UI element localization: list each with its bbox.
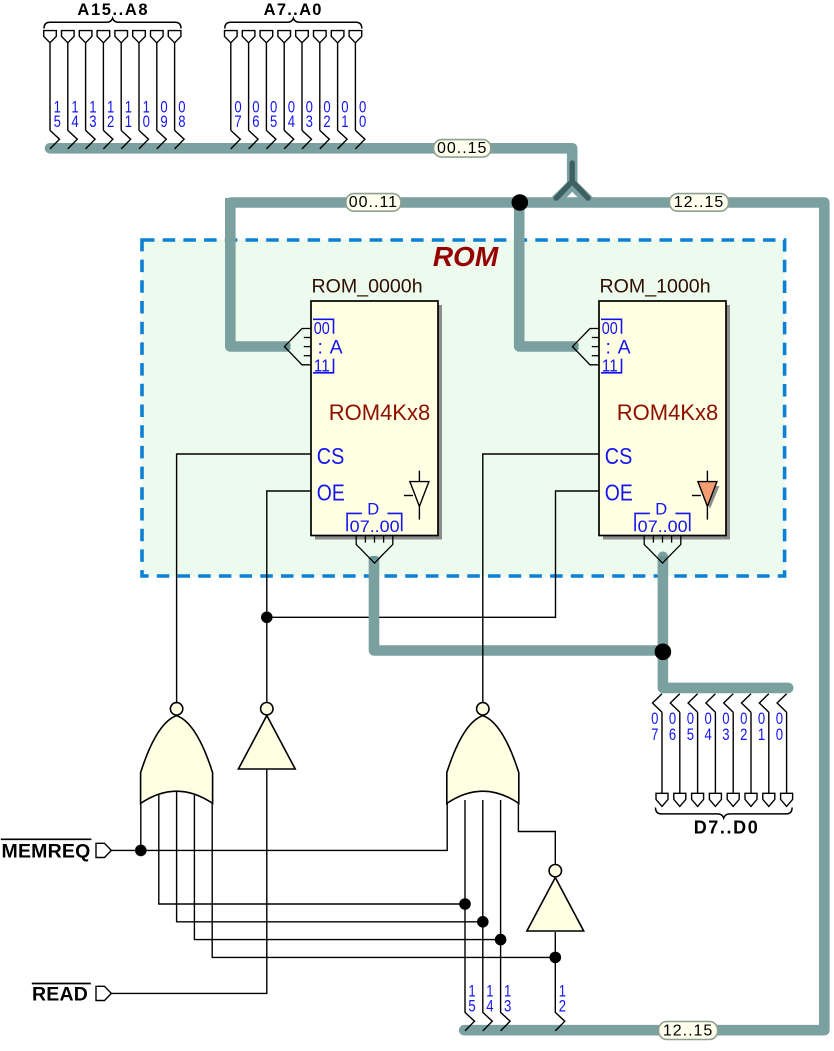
svg-text:7: 7: [651, 725, 658, 744]
svg-text:3: 3: [306, 112, 313, 131]
D bus output funnel: [644, 536, 681, 563]
svg-text:8: 8: [178, 112, 185, 131]
bus label 12..15 right: [670, 194, 729, 212]
gate G1 (5-input NOR, pointing up): [141, 703, 213, 804]
wire CS ROM_0000h (gate G1 output to CS pin): [177, 454, 311, 703]
svg-text:00: 00: [602, 318, 618, 338]
bus pin A14: [62, 31, 79, 149]
bus junction dot D rails: [655, 644, 672, 661]
bus pin A6: [242, 31, 259, 149]
bus entry 12 bottom: [555, 982, 566, 1031]
bus pin D1: [758, 694, 775, 807]
svg-text:2: 2: [107, 112, 114, 131]
svg-text:A15..A8: A15..A8: [77, 1, 149, 19]
A bus input funnel: [573, 329, 600, 365]
svg-text:MEMREQ: MEMREQ: [2, 840, 91, 862]
svg-text:07..00: 07..00: [350, 517, 400, 536]
bus D output ROM_0000h: [374, 557, 663, 651]
svg-text:ROM_1000h: ROM_1000h: [600, 275, 711, 297]
svg-text:1: 1: [341, 112, 348, 131]
bus tip square ROM_1000h D: [660, 556, 666, 560]
inverter U4 (pointing up): [527, 865, 584, 932]
ROM chip ROM_1000h body: [599, 301, 726, 536]
wire A12 from gate G1 input down and right: [212, 792, 555, 957]
bus pin A2: [314, 31, 331, 149]
bus tip square ROM_1000h A: [572, 343, 579, 350]
wire A12 riser to inverter U4 input: [554, 932, 556, 957]
svg-text:4: 4: [71, 112, 78, 131]
svg-text:9: 9: [160, 112, 167, 131]
svg-text:00..15: 00..15: [437, 140, 487, 157]
bus pin A3: [296, 31, 313, 149]
ROM chip ROM_1000h shadow: [603, 305, 730, 540]
bus pin A15: [44, 31, 61, 149]
svg-text:ROM_0000h: ROM_0000h: [312, 275, 423, 297]
svg-text:3: 3: [504, 997, 511, 1016]
bus tip square ROM_0000h A: [284, 343, 291, 350]
svg-text:12..15: 12..15: [674, 194, 724, 211]
wire READ to inverter U3 input: [111, 769, 266, 993]
inverter U3 (pointing up): [238, 703, 295, 770]
bus label 12..15 bottom: [659, 1022, 718, 1040]
bus splitter dark Y symbol: [556, 163, 588, 198]
svg-text:D: D: [655, 501, 667, 519]
pin connector READ: [96, 986, 111, 1000]
svg-text:00: 00: [314, 318, 330, 338]
svg-text:12..15: 12..15: [663, 1023, 713, 1040]
A bus input funnel: [285, 329, 312, 365]
gate G2 (5-input NOR, pointing up): [447, 703, 519, 804]
bus drop to ROM_1000h A input: [519, 206, 577, 347]
bus pin A1: [331, 31, 348, 149]
svg-text:2: 2: [559, 997, 566, 1016]
bus tip square ROM_0000h D: [371, 556, 377, 560]
svg-text:5: 5: [468, 997, 475, 1016]
bus Y-split light branches: [555, 184, 590, 201]
bus 00..15 top horizontal with corner down: [50, 148, 572, 183]
ROM chip ROM_0000h shadow: [315, 305, 442, 540]
svg-text:0: 0: [359, 112, 366, 131]
junction dot A13 node: [495, 934, 507, 946]
svg-text:2: 2: [323, 112, 330, 131]
svg-text:4: 4: [486, 997, 493, 1016]
bracket under D7..D0 pins: [656, 808, 793, 819]
svg-text:CS: CS: [317, 443, 345, 469]
bus D output ROM_1000h and D7..D0 rail: [663, 557, 788, 688]
junction dot OE node: [261, 612, 273, 624]
wire bus leg 13 riser: [500, 940, 502, 1013]
bus pin A5: [260, 31, 277, 149]
junction dot A14 node: [477, 916, 489, 928]
svg-text:07..00: 07..00: [638, 517, 688, 536]
svg-text:0: 0: [143, 112, 150, 131]
bus pin D7: [651, 694, 668, 807]
wire bus leg 12 riser: [554, 957, 556, 1012]
svg-text:5: 5: [687, 725, 694, 744]
junction dot A12 node: [550, 952, 562, 964]
svg-text:5: 5: [54, 112, 61, 131]
svg-text:7: 7: [234, 112, 241, 131]
bus entry 13 bottom: [501, 982, 512, 1031]
svg-text:6: 6: [252, 112, 259, 131]
svg-text:CS: CS: [605, 443, 633, 469]
bus pin A11: [115, 31, 132, 149]
wire MEMREQ horizontal to gate G2 input: [111, 800, 447, 850]
bus pin D2: [740, 694, 757, 807]
bus pin A08: [168, 31, 185, 149]
junction dot MEMREQ node: [135, 845, 147, 857]
svg-text:D7..D0: D7..D0: [694, 818, 760, 838]
svg-text:ROM: ROM: [433, 241, 499, 272]
bus entry 14 bottom: [483, 982, 494, 1031]
bus junction dot 12..15 split: [512, 194, 529, 211]
svg-text:ROM4Kx8: ROM4Kx8: [617, 400, 718, 425]
D bus output funnel: [356, 536, 393, 563]
svg-text:0: 0: [776, 725, 783, 744]
wire A14 riser to gate G2 input: [482, 800, 484, 922]
bus pin A7: [225, 31, 242, 149]
bus pin D5: [687, 694, 704, 807]
svg-text:OE: OE: [317, 480, 345, 506]
junction dot A15 node: [459, 898, 471, 910]
svg-text:3: 3: [722, 725, 729, 744]
ROM region dashed box: [142, 240, 785, 576]
bus pin A09: [151, 31, 168, 149]
three-state output symbol: [404, 471, 429, 520]
wire MEMREQ to gate G1 input: [140, 796, 142, 850]
svg-text:1: 1: [758, 725, 765, 744]
bus pin D0: [776, 694, 793, 807]
svg-text:ROM4Kx8: ROM4Kx8: [329, 400, 430, 425]
wire OE ROM_0000h (inverter U3 output to OE pin): [267, 491, 311, 703]
bus pin A4: [278, 31, 295, 149]
wire A14 from gate G1 input down and right: [177, 792, 483, 922]
bus 00..11 drop to ROM_0000h A input: [230, 198, 289, 347]
svg-text:A7..A0: A7..A0: [264, 1, 323, 19]
three-state output symbol: [701, 486, 720, 509]
wire CS ROM_1000h (gate G2 output to CS pin, crosses D bus): [483, 454, 599, 703]
wire inverter U4 output to gate G2 input: [518, 792, 555, 864]
svg-text:00..11: 00..11: [349, 194, 398, 211]
bus 12..15 main: second rail, right edge drop, bottom rail: [231, 203, 824, 1031]
bracket over A7..A0 pins: [225, 18, 362, 28]
svg-text:4: 4: [705, 725, 712, 744]
bus pin D6: [669, 694, 686, 807]
svg-text:READ: READ: [32, 984, 88, 1006]
wire A15 from gate G1 input down and right: [159, 792, 465, 904]
pin connector MEMREQ: [96, 843, 111, 857]
bus pin D3: [722, 694, 739, 807]
svg-text:6: 6: [669, 725, 676, 744]
bus pin A12: [97, 31, 114, 149]
svg-text:3: 3: [89, 112, 96, 131]
svg-text:OE: OE: [605, 480, 633, 506]
wire A13 riser to gate G2 input: [500, 800, 502, 940]
bus pin A10: [133, 31, 150, 149]
ROM chip ROM_0000h body: [311, 301, 438, 536]
svg-text:4: 4: [288, 112, 295, 131]
bus pin D4: [705, 694, 722, 807]
svg-text:5: 5: [270, 112, 277, 131]
bus label 00..15 top: [434, 140, 491, 158]
wire A15 riser to gate G2 input: [464, 800, 466, 904]
wire OE ROM_1000h (from node at inverter output): [267, 491, 599, 617]
wire bus leg 15 riser: [464, 904, 466, 1013]
wire A13 from gate G1 input down and right: [194, 792, 500, 940]
bus pin A0: [349, 31, 366, 149]
svg-text:2: 2: [740, 725, 747, 744]
bus pin A13: [79, 31, 96, 149]
bus label 00..11: [346, 194, 401, 212]
bus entry 15 bottom: [465, 982, 476, 1031]
wire bus leg 14 riser: [482, 922, 484, 1013]
svg-text:1: 1: [125, 112, 132, 131]
bracket over A15..A8 pins: [44, 18, 181, 28]
svg-text:D: D: [367, 501, 379, 519]
